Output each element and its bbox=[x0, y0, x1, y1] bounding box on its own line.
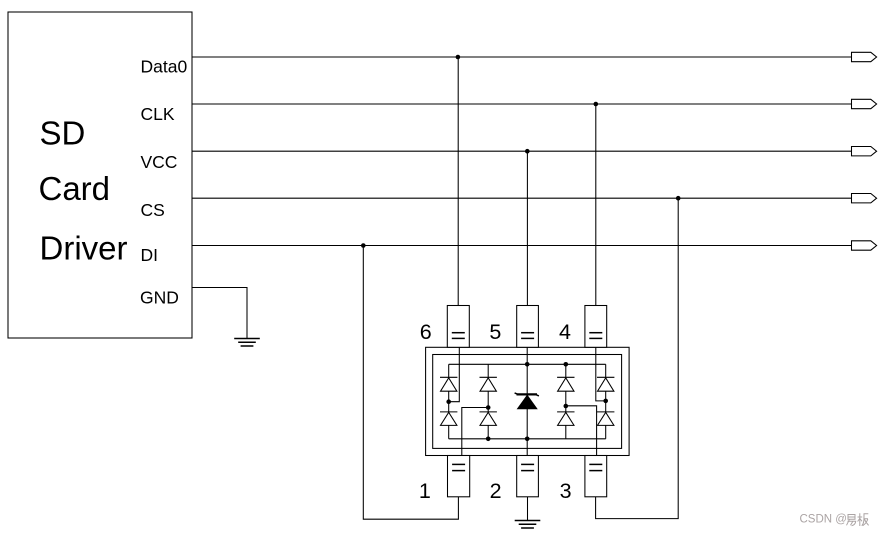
svg-text:Driver: Driver bbox=[40, 230, 128, 267]
svg-text:VCC: VCC bbox=[141, 152, 178, 172]
svg-text:4: 4 bbox=[559, 320, 571, 344]
svg-text:GND: GND bbox=[140, 287, 179, 307]
svg-text:CS: CS bbox=[141, 200, 165, 220]
svg-text:6: 6 bbox=[420, 320, 432, 344]
svg-text:Card: Card bbox=[39, 170, 111, 207]
svg-text:Data0: Data0 bbox=[141, 57, 188, 77]
svg-text:3: 3 bbox=[560, 479, 572, 503]
svg-text:5: 5 bbox=[489, 320, 501, 344]
svg-text:CSDN @: CSDN @ bbox=[800, 514, 847, 526]
svg-text:2: 2 bbox=[490, 479, 502, 503]
svg-text:SD: SD bbox=[40, 115, 86, 152]
svg-text:1: 1 bbox=[419, 479, 431, 503]
svg-text:DI: DI bbox=[141, 245, 159, 265]
svg-text:CLK: CLK bbox=[141, 104, 175, 124]
